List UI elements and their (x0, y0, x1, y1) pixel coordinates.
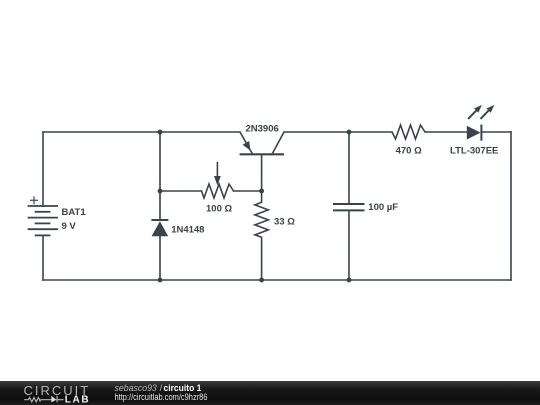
wire base (261, 156, 263, 191)
svg-text:100 Ω: 100 Ω (206, 204, 232, 215)
wire cap top (348, 132, 350, 204)
LED D2 LTL-307EE (450, 105, 498, 156)
wire right rail (510, 132, 512, 280)
wire LED-to-right-rail (482, 131, 512, 133)
wire left rail top (42, 132, 44, 206)
wire pot right (234, 190, 262, 192)
wire 33ohm top (261, 191, 263, 202)
wire diode top (159, 132, 161, 220)
junction dots (158, 130, 352, 283)
logo glyph resistor-diode (24, 396, 63, 403)
diode D1 1N4148 (151, 220, 204, 236)
battery label BAT1 9V (62, 207, 87, 232)
transistor Q1 2N3906 (240, 123, 284, 154)
svg-text:1N4148: 1N4148 (171, 224, 204, 235)
svg-text:http://circuitlab.com/c9hzr86: http://circuitlab.com/c9hzr86 (115, 392, 208, 403)
svg-text:470 Ω: 470 Ω (396, 145, 422, 156)
svg-text:2N3906: 2N3906 (246, 123, 279, 134)
wire bottom rail (43, 279, 511, 281)
wire 470-to-LED (425, 131, 467, 133)
footer bar (0, 381, 540, 405)
svg-text:33 Ω: 33 Ω (274, 217, 295, 228)
wire diode bottom (159, 236, 161, 280)
svg-text:LAB: LAB (65, 395, 91, 405)
wire pot left (160, 190, 202, 192)
wire top rail left (emitter net) (43, 131, 240, 133)
resistor 470ohm (392, 125, 425, 156)
battery BAT1 (28, 196, 58, 235)
capacitor 100uF (333, 202, 398, 213)
wire top rail right (collector net) (284, 131, 392, 133)
wire left rail bottom (42, 235, 44, 280)
resistor 33ohm (255, 202, 295, 237)
potentiometer 100ohm (202, 162, 234, 215)
svg-text:9 V: 9 V (62, 221, 77, 232)
svg-text:BAT1: BAT1 (62, 207, 87, 218)
svg-text:100 µF: 100 µF (368, 202, 398, 213)
wire cap bottom (348, 210, 350, 280)
svg-text:LTL-307EE: LTL-307EE (450, 145, 498, 156)
wire 33ohm bottom (261, 237, 263, 280)
